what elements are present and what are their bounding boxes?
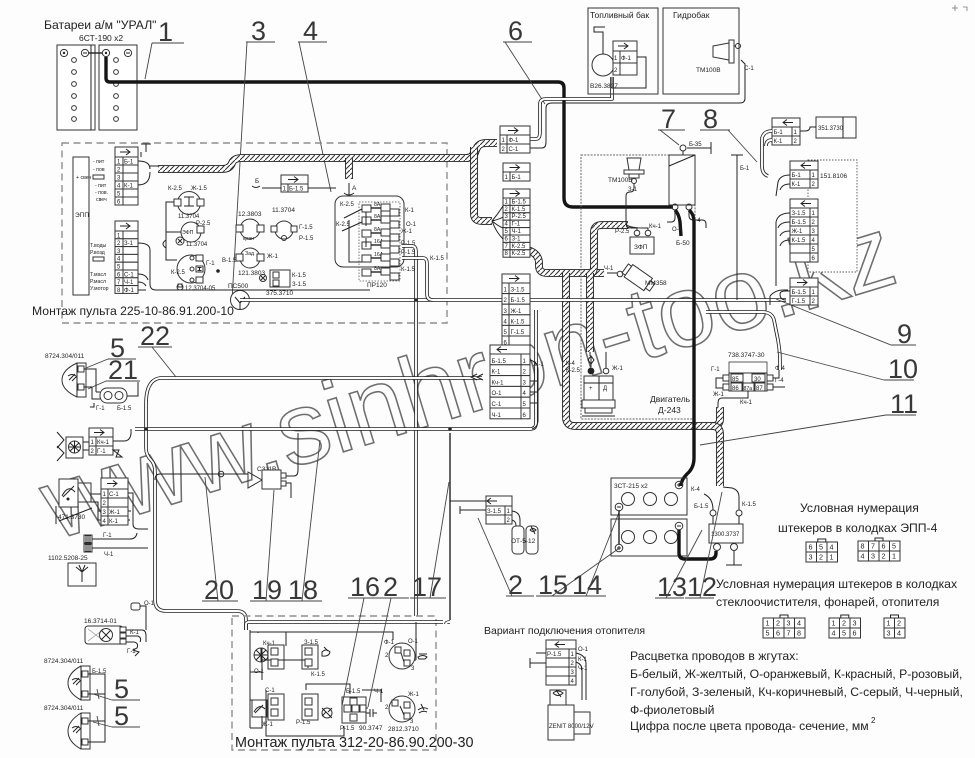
svg-text:С-1: С-1	[509, 147, 519, 153]
svg-text:Б-1.5: Б-1.5	[492, 359, 507, 365]
svg-text:21: 21	[108, 355, 138, 385]
svg-text:Б-50: Б-50	[676, 240, 690, 247]
svg-text:Ж-1: Ж-1	[713, 392, 725, 398]
connector X10 tank	[500, 126, 530, 153]
svg-text:Ж-1: Ж-1	[267, 254, 279, 260]
svg-text:1: 1	[158, 17, 173, 47]
callout 14	[570, 510, 620, 600]
svg-text:Ч-1: Ч-1	[604, 266, 614, 272]
svg-text:- пит: - пит	[93, 159, 105, 165]
svg-text:штекеров в колодках ЭПП-4: штекеров в колодках ЭПП-4	[778, 521, 938, 535]
svg-text:Р-1.5: Р-1.5	[401, 250, 416, 256]
svg-text:Двигатель: Двигатель	[650, 394, 691, 404]
relay 90.3747	[340, 689, 384, 732]
wire harness band A main	[158, 147, 474, 169]
svg-text:1: 1	[830, 553, 834, 562]
svg-text:Г-1: Г-1	[96, 406, 105, 412]
svg-text:К-1.5: К-1.5	[430, 256, 444, 262]
wire hydro sender	[530, 60, 745, 148]
svg-text:2: 2	[871, 716, 876, 725]
svg-text:Условная нумерация штекеров в: Условная нумерация штекеров в колодках	[716, 577, 957, 591]
svg-text:3СТ-215 х2: 3СТ-215 х2	[614, 483, 648, 490]
svg-text:30: 30	[754, 377, 761, 383]
svg-text:К-1.5: К-1.5	[511, 319, 525, 325]
callout 19	[250, 490, 286, 605]
callout 5	[86, 333, 136, 368]
connector K4 + lamp	[296, 694, 332, 726]
battery GB3	[611, 519, 687, 556]
headlight bus wires	[88, 674, 105, 742]
svg-text:Ч-1: Ч-1	[374, 689, 384, 695]
svg-text:2: 2	[776, 619, 780, 628]
wire x450 drop	[449, 433, 451, 620]
svg-text:2812.3710: 2812.3710	[388, 726, 419, 733]
svg-text:О-1: О-1	[578, 647, 589, 653]
connector X32 wiper	[91, 478, 148, 529]
svg-text:3: 3	[871, 552, 875, 561]
callout 20	[202, 477, 238, 605]
switch SA6 121.3803	[222, 248, 279, 277]
svg-text:Р-2.5: Р-2.5	[512, 214, 527, 220]
switch SA5 11.3704	[271, 207, 314, 242]
connector X21	[790, 161, 818, 188]
svg-text:К-1: К-1	[405, 208, 414, 214]
svg-text:Гидробак: Гидробак	[673, 10, 710, 20]
svg-text:8А: 8А	[374, 214, 381, 220]
callout 13	[655, 530, 702, 602]
svg-text:Условная нумерация: Условная нумерация	[800, 501, 919, 515]
svg-text:8724.304/011: 8724.304/011	[45, 353, 85, 360]
svg-text:К-2.5: К-2.5	[336, 222, 350, 228]
heater OT-5-12	[511, 526, 538, 554]
label B-1 right	[731, 155, 750, 300]
svg-text:ЭФП: ЭФП	[182, 230, 194, 236]
svg-text:Д-243: Д-243	[658, 405, 681, 415]
svg-text:Ч-1: Ч-1	[512, 229, 522, 235]
svg-text:В-1.5: В-1.5	[222, 258, 237, 264]
svg-text:5: 5	[114, 674, 129, 704]
svg-text:3: 3	[887, 629, 891, 638]
svg-text:Ф-1: Ф-1	[384, 640, 395, 646]
svg-text:Б-1: Б-1	[512, 175, 522, 181]
svg-text:З-1.5: З-1.5	[792, 211, 807, 217]
wire X20 left	[762, 131, 772, 176]
callout 15	[536, 549, 618, 600]
connector 375.3710	[260, 270, 307, 297]
svg-text:5: 5	[766, 629, 770, 638]
svg-text:6: 6	[776, 629, 780, 638]
wire X21-X23 left loops	[776, 175, 790, 196]
svg-text:1: 1	[892, 552, 896, 561]
svg-text:8: 8	[861, 542, 865, 551]
connector X13 6-pin	[502, 274, 530, 347]
wire harness band A stub PR120	[345, 158, 353, 179]
connector X1 EPP 6-pin	[115, 144, 158, 206]
svg-text:Ж-1: Ж-1	[408, 692, 420, 698]
svg-text:Б-1: Б-1	[792, 173, 802, 179]
connector X40 Z-1.5	[450, 496, 520, 526]
svg-text:Б-1.5: Б-1.5	[694, 504, 709, 510]
svg-text:Кч-1: Кч-1	[740, 400, 753, 406]
callout 3	[232, 16, 275, 300]
wire battery link	[618, 511, 620, 544]
svg-text:2: 2	[819, 553, 823, 562]
fan icon	[254, 641, 276, 675]
svg-text:3: 3	[787, 619, 791, 628]
callout 6	[503, 16, 545, 104]
label B-35	[680, 142, 711, 155]
svg-text:2: 2	[882, 552, 886, 561]
wire harness band D up stub	[712, 407, 720, 426]
flasher C311V	[155, 433, 298, 498]
svg-text:Монтаж пульта 225-10-86.91.200: Монтаж пульта 225-10-86.91.200-10	[32, 304, 234, 318]
svg-text:К-1: К-1	[492, 370, 501, 376]
svg-text:ЭПП: ЭПП	[75, 212, 89, 219]
junction dots	[216, 269, 220, 273]
switch wiper SW2	[385, 692, 428, 733]
svg-text:4: 4	[861, 552, 865, 561]
wire harness band C up EFP	[590, 225, 628, 273]
svg-text:4: 4	[830, 543, 834, 552]
EPP unit	[73, 157, 89, 295]
svg-text:Р.масл: Р.масл	[90, 279, 106, 285]
wire bus y300	[240, 298, 786, 302]
svg-text:2: 2	[508, 570, 523, 600]
svg-text:К-1.5: К-1.5	[512, 207, 526, 213]
wire pair y429	[135, 310, 536, 429]
svg-text:Р.возд: Р.возд	[90, 250, 105, 256]
connector X2 EPP 8-pin	[115, 221, 370, 294]
svg-text:Ж-1: Ж-1	[533, 362, 545, 368]
svg-text:Цифра после цвета провода- сеч: Цифра после цвета провода- сечение, мм	[630, 719, 869, 733]
svg-text:3: 3	[809, 553, 813, 562]
svg-text:У.мотор: У.мотор	[90, 286, 109, 292]
svg-text:22: 22	[140, 321, 170, 351]
headlight HL3	[44, 705, 90, 749]
svg-text:В26.3827: В26.3827	[590, 83, 618, 90]
svg-text:Кч-1: Кч-1	[263, 641, 276, 647]
svg-text:К-2.5: К-2.5	[168, 186, 182, 192]
connector X11	[503, 163, 530, 181]
svg-text:О-1: О-1	[406, 222, 417, 228]
corner mark	[952, 5, 967, 11]
svg-text:ОТ-5-12: ОТ-5-12	[511, 538, 536, 545]
svg-text:3: 3	[853, 619, 857, 628]
switch SA3 12.3704-05	[171, 255, 216, 292]
svg-text:1102.5208-25: 1102.5208-25	[48, 555, 88, 562]
svg-text:Ч-1: Ч-1	[492, 413, 502, 419]
svg-text:О-1: О-1	[254, 669, 265, 675]
svg-text:16: 16	[350, 572, 380, 602]
connector X23	[790, 278, 818, 305]
wire fuel sender pair	[530, 77, 612, 139]
svg-text:8724.304/011: 8724.304/011	[44, 658, 84, 665]
svg-text:З-1: З-1	[512, 236, 522, 242]
sensor TM100V engine	[608, 158, 644, 221]
fuel tank box	[588, 8, 658, 94]
svg-text:10: 10	[888, 354, 918, 384]
battery terminal node	[672, 204, 692, 210]
svg-text:Д: Д	[603, 386, 607, 392]
callout 5c	[93, 701, 140, 731]
callout 17	[410, 482, 449, 602]
svg-text:7: 7	[787, 629, 791, 638]
legend grid G6	[829, 615, 861, 638]
svg-text:20: 20	[204, 575, 234, 605]
svg-text:Монтаж пульта 312-20-86.90.200: Монтаж пульта 312-20-86.90.200-30	[235, 735, 473, 751]
connector K3	[262, 694, 284, 728]
connector X3 1 B-1.5	[262, 175, 336, 193]
svg-text:2: 2	[842, 619, 846, 628]
callout 9	[776, 299, 916, 349]
svg-text:17: 17	[412, 572, 442, 602]
svg-text:К-2.5: К-2.5	[171, 270, 185, 276]
callout 8	[700, 104, 757, 162]
svg-text:Б-1.5: Б-1.5	[289, 187, 304, 193]
connector X30 2-pin round	[84, 369, 138, 412]
svg-text:Б-белый, Ж-желтый, О-оранжевый: Б-белый, Ж-желтый, О-оранжевый, К-красны…	[630, 667, 962, 681]
svg-text:12.3704-05: 12.3704-05	[185, 286, 216, 292]
connector X20 plafond	[772, 118, 800, 145]
svg-text:ММ358: ММ358	[645, 280, 667, 287]
svg-text:Р-1.5: Р-1.5	[547, 652, 562, 658]
svg-text:2: 2	[897, 619, 901, 628]
svg-text:6: 6	[508, 16, 523, 46]
svg-text:Ф-1: Ф-1	[621, 56, 632, 62]
wire harness band C down engine	[566, 273, 712, 426]
battery GB2 3ST-215	[611, 478, 687, 515]
svg-text:87: 87	[756, 386, 763, 392]
O-1 stub	[131, 601, 155, 630]
svg-text:Г-голубой, З-зеленый, Кч-корич: Г-голубой, З-зеленый, Кч-коричневый, С-с…	[630, 685, 963, 699]
wire harness band B drop	[474, 147, 492, 221]
svg-text:К-2.5: К-2.5	[512, 251, 526, 257]
svg-text:Г-1: Г-1	[512, 222, 521, 228]
switch SA4 12.3803	[236, 211, 264, 242]
svg-text:К-1: К-1	[774, 139, 783, 145]
svg-text:Б-1: Б-1	[774, 130, 784, 136]
callout 10	[777, 352, 918, 384]
svg-text:151.8106: 151.8106	[820, 173, 847, 180]
svg-text:4: 4	[832, 629, 836, 638]
svg-text:Б-1.5: Б-1.5	[117, 406, 132, 412]
callout 2b	[478, 518, 534, 600]
lamp 16.3714-01	[84, 618, 146, 656]
svg-text:11.3704: 11.3704	[178, 214, 200, 220]
svg-text:8: 8	[797, 629, 801, 638]
callout 2a	[368, 572, 409, 707]
svg-text:Г-1: Г-1	[127, 649, 136, 655]
switch SA1 11.3704	[168, 186, 208, 220]
svg-text:90.3747: 90.3747	[359, 725, 383, 732]
svg-text:Б-1.5: Б-1.5	[511, 298, 526, 304]
svg-text:738.3747-30: 738.3747-30	[728, 352, 765, 359]
panel 225-10 dashed enclosure	[62, 143, 447, 323]
svg-text:З-1.5: З-1.5	[511, 288, 526, 294]
svg-text:Ф-1: Ф-1	[124, 288, 135, 294]
svg-text:+ свеч: + свеч	[76, 175, 91, 181]
svg-text:Ч-1: Ч-1	[104, 552, 114, 558]
lamp 351.3730	[800, 117, 856, 138]
engine D-243 box	[581, 155, 695, 419]
svg-text:К-1.5: К-1.5	[792, 238, 806, 244]
svg-text:К-4: К-4	[691, 487, 700, 493]
callout 12	[685, 492, 722, 602]
svg-text:8724.304/011: 8724.304/011	[44, 705, 84, 712]
wire harness band A up-right	[466, 143, 497, 158]
svg-text:6: 6	[809, 543, 813, 552]
svg-text:Р-2.5: Р-2.5	[615, 229, 630, 235]
svg-text:Кч-1: Кч-1	[97, 440, 110, 446]
callout 11	[700, 389, 918, 445]
svg-text:6СТ-190 х2: 6СТ-190 х2	[79, 33, 123, 43]
heater ZENIT	[548, 690, 594, 740]
svg-text:Ж-1: Ж-1	[792, 229, 804, 235]
legend wire colors	[630, 649, 963, 733]
svg-text:6: 6	[853, 629, 857, 638]
switch light SW1	[384, 639, 427, 672]
svg-text:Ф-фиолетовый: Ф-фиолетовый	[630, 703, 714, 717]
watermark	[27, 193, 907, 561]
svg-text:2: 2	[383, 572, 398, 602]
gauge icon	[252, 688, 275, 717]
connector K2	[302, 640, 330, 678]
label B node	[252, 178, 260, 188]
headlight HL1 8724.304/011	[45, 353, 86, 397]
svg-text:К-4: К-4	[566, 361, 575, 367]
connector X22	[790, 199, 818, 262]
callout 18	[286, 440, 322, 605]
svg-text:Г-1: Г-1	[206, 261, 215, 267]
svg-text:Ж-1: Ж-1	[401, 229, 413, 235]
legend grid EPP-8	[858, 538, 900, 561]
wire pair y377	[146, 378, 482, 404]
svg-text:3: 3	[251, 16, 266, 46]
legend grid G4	[884, 615, 905, 638]
svg-text:4: 4	[797, 619, 801, 628]
svg-text:Г-1: Г-1	[103, 533, 112, 539]
svg-text:З-1.5: З-1.5	[304, 640, 319, 646]
washer pump 1102.5208-25	[48, 533, 148, 586]
svg-text:8: 8	[703, 104, 718, 134]
callout 5b	[93, 674, 140, 704]
fuse block PR120	[335, 183, 444, 289]
svg-text:С-1: С-1	[265, 688, 275, 694]
svg-text:С-1: С-1	[492, 402, 502, 408]
svg-text:Батареи а/м "УРАЛ": Батареи а/м "УРАЛ"	[44, 18, 157, 32]
svg-text:5: 5	[819, 543, 823, 552]
wire harness band C main	[524, 249, 604, 273]
svg-text:Т.воды: Т.воды	[90, 243, 107, 249]
connector K1	[268, 645, 284, 669]
svg-text:9: 9	[897, 319, 912, 349]
svg-text:Вариант подключения отопителя: Вариант подключения отопителя	[484, 625, 645, 637]
svg-text:Б-1.5: Б-1.5	[346, 689, 361, 695]
svg-text:ZENIT 8000/12V: ZENIT 8000/12V	[549, 724, 594, 730]
svg-text:375.3710: 375.3710	[266, 290, 293, 297]
svg-text:12.3803: 12.3803	[238, 211, 262, 218]
svg-text:16.3714-01: 16.3714-01	[84, 618, 117, 625]
svg-text:1: 1	[766, 619, 770, 628]
svg-text:Ж-1: Ж-1	[511, 309, 523, 315]
svg-text:К-1.5: К-1.5	[401, 267, 415, 273]
wire bus left x146	[146, 404, 246, 630]
svg-text:8А: 8А	[374, 227, 381, 233]
svg-text:К-1.5: К-1.5	[292, 273, 306, 279]
svg-text:С-1: С-1	[109, 492, 119, 498]
svg-text:А: А	[352, 185, 357, 192]
svg-text:ТМ100В: ТМ100В	[608, 177, 633, 184]
svg-text:Р-2.5: Р-2.5	[196, 221, 211, 227]
callout 21	[88, 355, 140, 389]
svg-text:Р-1.5: Р-1.5	[296, 720, 311, 726]
wire pair x427 to y300	[402, 258, 433, 300]
svg-text:86: 86	[732, 386, 739, 392]
wire X14 right stubs	[530, 360, 538, 429]
svg-text:8А: 8А	[374, 202, 381, 208]
svg-text:Ж-1.5: Ж-1.5	[191, 186, 208, 192]
svg-text:К-2.5: К-2.5	[512, 244, 526, 250]
svg-text:Б-1.5: Б-1.5	[792, 290, 807, 296]
wiper 471.3730	[56, 479, 92, 524]
svg-text:Б-1: Б-1	[740, 166, 750, 172]
svg-text:Ж-1: Ж-1	[109, 510, 121, 516]
callout 16	[342, 572, 384, 706]
svg-text:- пов: - пов	[93, 167, 105, 173]
cable B-50 K-4	[681, 210, 694, 486]
svg-text:Б-1.5: Б-1.5	[792, 220, 807, 226]
svg-text:Г-4: Г-4	[775, 378, 784, 384]
svg-text:Г-4: Г-4	[692, 218, 701, 224]
svg-text:1: 1	[887, 619, 891, 628]
EPP pin labels	[76, 159, 109, 292]
svg-text:Г-1: Г-1	[97, 449, 106, 455]
legend grid EPP-6	[806, 539, 838, 562]
svg-text:11.3704: 11.3704	[186, 242, 208, 248]
svg-text:8А: 8А	[374, 266, 381, 272]
svg-text:- пов.: - пов.	[95, 190, 108, 196]
wire switch column	[163, 202, 181, 260]
connector X14 6-pin	[490, 345, 530, 419]
svg-text:5: 5	[842, 629, 846, 638]
svg-text:- пит: - пит	[95, 183, 107, 189]
generator terminal wires	[590, 352, 606, 361]
starter	[566, 356, 624, 416]
svg-text:ЗФП: ЗФП	[634, 244, 648, 251]
svg-text:11.3704: 11.3704	[272, 207, 295, 214]
svg-text:Р-1.5: Р-1.5	[340, 726, 355, 732]
relay 1300.3737	[694, 487, 756, 565]
svg-text:Кч-1: Кч-1	[492, 380, 505, 386]
wire panel top bus	[246, 622, 450, 630]
switch SA2 EFP 11.3704	[176, 221, 211, 248]
callout 4	[298, 16, 331, 192]
svg-text:Г-1.5: Г-1.5	[792, 299, 806, 305]
svg-text:Г-1: Г-1	[711, 367, 720, 373]
svg-text:Кч-1: Кч-1	[649, 224, 662, 230]
svg-text:З-1.5: З-1.5	[487, 509, 502, 515]
svg-text:О-4: О-4	[672, 227, 683, 233]
svg-text:5: 5	[892, 542, 896, 551]
connector X50 heater	[530, 640, 589, 700]
svg-text:7: 7	[871, 542, 875, 551]
svg-text:О-1: О-1	[408, 639, 419, 645]
svg-text:+: +	[589, 386, 593, 392]
svg-text:Ф-1: Ф-1	[509, 138, 520, 144]
svg-text:Расцветка проводов в жгутах:: Расцветка проводов в жгутах:	[630, 649, 799, 663]
label A node	[344, 183, 357, 196]
cable battery to relay	[679, 530, 716, 559]
